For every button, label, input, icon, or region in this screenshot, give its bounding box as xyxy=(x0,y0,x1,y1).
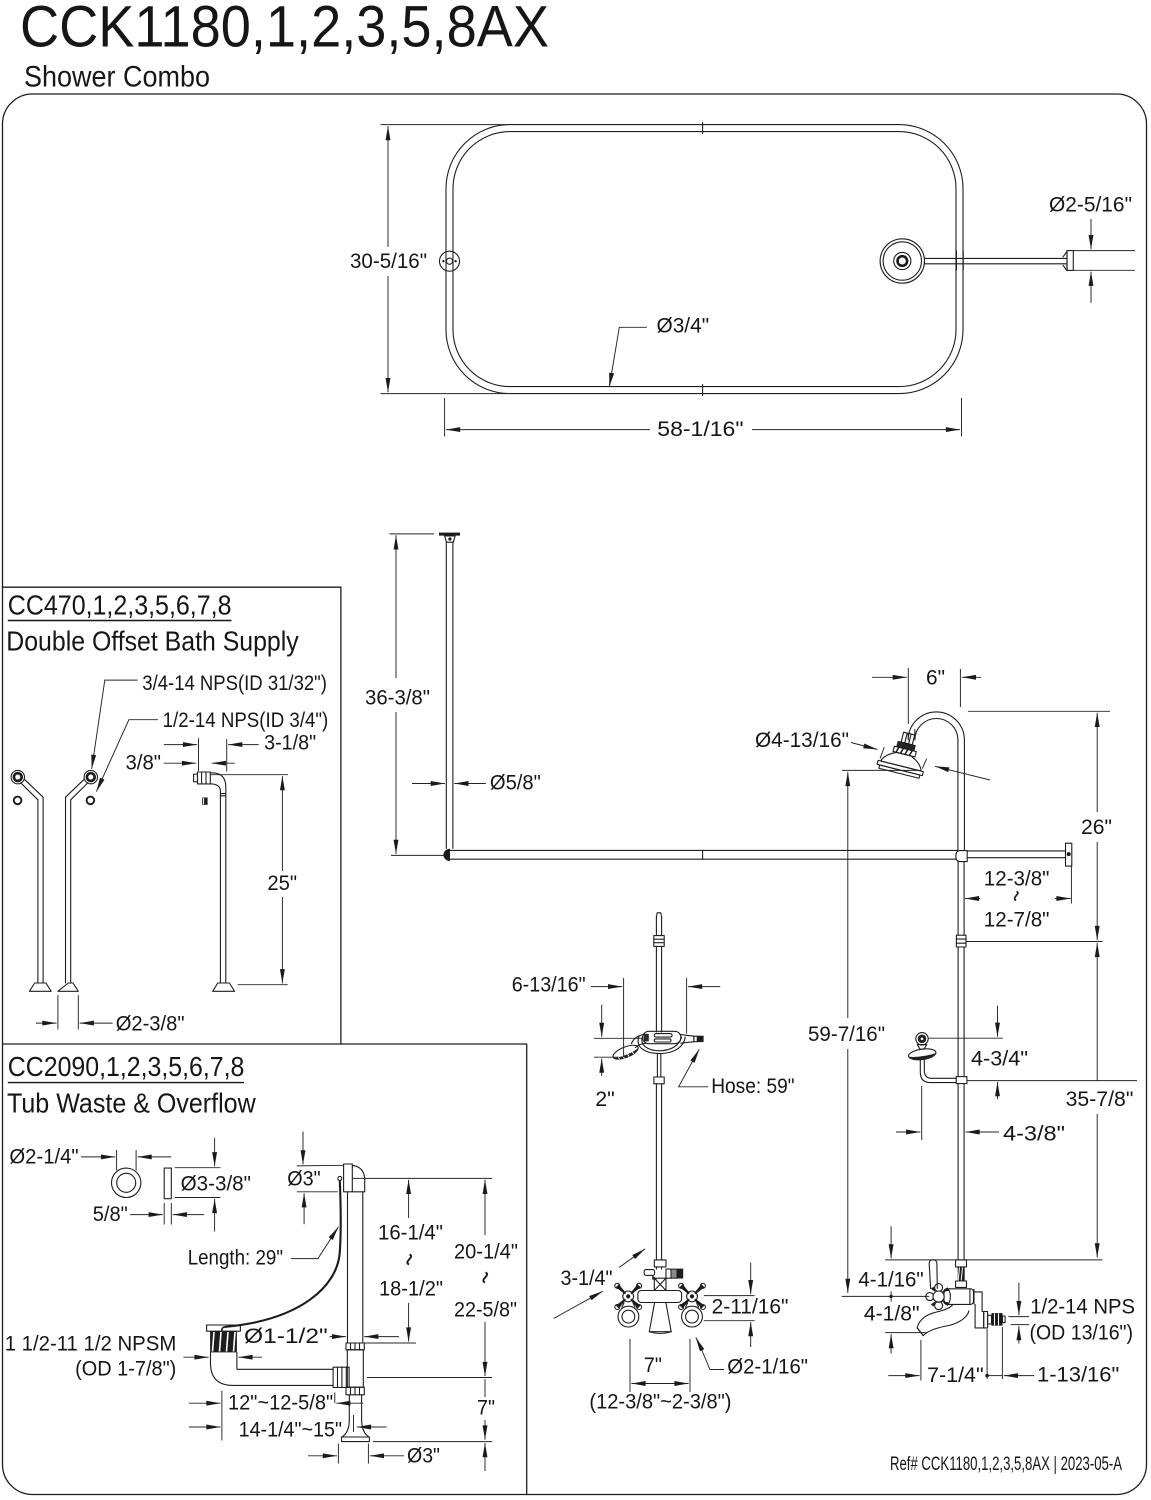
svg-text:5/8": 5/8" xyxy=(93,1202,128,1226)
svg-text:Ø2-5/16": Ø2-5/16" xyxy=(1049,193,1132,217)
dim 36-3/8 xyxy=(390,533,435,535)
overflow tee body xyxy=(347,1350,363,1387)
floor flange xyxy=(342,1421,369,1437)
cradle hook xyxy=(638,1037,685,1054)
dim 12-3/8 ~ 12-7/8 (right rod length) xyxy=(1070,867,1072,904)
svg-text:Ø3": Ø3" xyxy=(287,1167,320,1191)
ceiling flange cup xyxy=(445,536,456,542)
svg-text:CCK1180,1,2,3,5,8AX: CCK1180,1,2,3,5,8AX xyxy=(20,0,549,60)
middle riser pipe to cradle xyxy=(655,946,657,1032)
supply pipe 3 port mark xyxy=(202,798,207,805)
svg-text:2-11/16": 2-11/16" xyxy=(712,1295,789,1319)
rod mid joint tick xyxy=(702,850,704,859)
middle faucet diverter lever xyxy=(644,1270,654,1276)
svg-text:7-1/4": 7-1/4" xyxy=(927,1363,984,1387)
waste arm coupling xyxy=(333,1367,349,1387)
dim 4-3/4 xyxy=(929,1037,1003,1039)
hand shower cone xyxy=(917,1045,926,1050)
svg-text:30-5/16": 30-5/16" xyxy=(350,249,427,273)
svg-text:Length: 29": Length: 29" xyxy=(188,1246,283,1270)
dim 30-5/16 xyxy=(381,124,509,126)
dim 12~12-5/8 xyxy=(221,1391,223,1441)
svg-text:7": 7" xyxy=(477,1396,495,1420)
dim O2-3/8 xyxy=(57,995,59,1030)
oval ceiling flange rings xyxy=(880,239,924,283)
supply pipe 2 wall flange xyxy=(84,770,97,783)
curtain rod oval outer xyxy=(446,125,963,394)
horizontal curtain rod side view xyxy=(447,849,958,851)
svg-text:Ø3/4": Ø3/4" xyxy=(657,314,710,338)
supply pipe 1 wall flange xyxy=(11,770,24,783)
cradle stem + clamp xyxy=(656,1054,658,1077)
oval joint tick top xyxy=(702,123,704,134)
svg-text:1-13/16": 1-13/16" xyxy=(1037,1363,1119,1387)
right faucet wall bracket xyxy=(974,1292,984,1328)
overflow washer ring xyxy=(112,1168,141,1197)
middle faucet riser nut xyxy=(654,1260,666,1267)
middle faucet body xyxy=(655,1267,657,1269)
right faucet valve body xyxy=(944,1289,974,1305)
svg-text:(12-3/8"~2-3/8"): (12-3/8"~2-3/8") xyxy=(589,1390,731,1414)
dim 3-1/8 xyxy=(198,738,200,771)
dim O3 (overflow head) xyxy=(297,1164,344,1167)
middle faucet hose nipple xyxy=(666,1269,671,1278)
dim O5/8 xyxy=(412,783,445,785)
svg-text:1/2-14 NPS: 1/2-14 NPS xyxy=(1030,1295,1135,1319)
dim 4-1/16 xyxy=(890,1226,892,1258)
overflow flexible hose xyxy=(225,1181,341,1328)
supply pipe 2 tube xyxy=(71,783,88,983)
svg-text:Ø2-3/8": Ø2-3/8" xyxy=(116,1012,185,1036)
shower head rim xyxy=(877,760,923,775)
svg-text:4-1/8": 4-1/8" xyxy=(864,1302,920,1326)
svg-text:25": 25" xyxy=(267,871,297,895)
overflow head cover plate xyxy=(344,1164,353,1192)
dim O3 (floor flange) xyxy=(337,1444,339,1464)
supply pipe 1 tube xyxy=(21,783,38,983)
svg-text:7": 7" xyxy=(644,1353,662,1377)
gooseneck arc xyxy=(908,712,964,740)
overflow pipe upper xyxy=(347,1192,349,1343)
right faucet cross handle xyxy=(935,1284,943,1292)
right faucet lever handle xyxy=(929,1260,937,1289)
dim 20-1/4 ~ 22-5/8 xyxy=(484,1180,486,1235)
tee coupling lower xyxy=(346,1387,364,1395)
dim O2-5/16 xyxy=(1073,250,1135,252)
svg-text:26": 26" xyxy=(1081,815,1112,839)
riser pipe to faucet xyxy=(957,1084,959,1260)
svg-text:(OD 13/16"): (OD 13/16") xyxy=(1030,1321,1134,1345)
drain elbow xyxy=(211,1352,334,1385)
drain strainer flange xyxy=(207,1325,241,1331)
svg-text:4-1/16": 4-1/16" xyxy=(858,1268,923,1292)
svg-text:Ø2-1/4": Ø2-1/4" xyxy=(9,1145,78,1169)
holder extension line xyxy=(967,1080,1137,1082)
dim 1/2-14 NPS (OD 13/16) xyxy=(1009,1316,1030,1318)
shower riser pipe (above rod) xyxy=(957,740,959,850)
svg-text:Shower Combo: Shower Combo xyxy=(24,61,210,94)
right rod wall flange xyxy=(1066,843,1072,866)
supply pipe 3 nut xyxy=(194,774,198,782)
svg-text:3/8": 3/8" xyxy=(126,751,162,775)
overflow tee coupling upper xyxy=(346,1343,364,1350)
dim 26" xyxy=(968,710,1110,712)
ceiling support rod xyxy=(445,542,447,848)
right faucet threaded section xyxy=(958,1267,965,1281)
faucet extension line (nut top) xyxy=(885,1259,1102,1261)
dim 59-7/16 xyxy=(842,769,918,771)
rod sleeve at riser crossing xyxy=(956,851,967,862)
middle faucet valve bar xyxy=(638,1291,682,1303)
dim 35-7/8 xyxy=(1096,943,1098,1081)
svg-text:12-7/8": 12-7/8" xyxy=(984,908,1050,932)
dim 58-1/16 xyxy=(444,398,446,437)
middle riser pipe upper xyxy=(655,917,657,936)
wall support rod (oval to wall flange) xyxy=(924,257,1066,259)
faucet centerline extension xyxy=(842,1295,930,1297)
svg-text:Ø5/8": Ø5/8" xyxy=(490,771,541,795)
dim 2-11/16 xyxy=(704,1295,755,1297)
overflow washer side view bar xyxy=(164,1168,171,1199)
svg-text:20-1/4": 20-1/4" xyxy=(454,1240,518,1264)
middle riser pipe top taper xyxy=(656,913,661,917)
shower head group (tilted) xyxy=(876,728,931,779)
overflow elbow xyxy=(352,1165,364,1192)
supply pipe 2 lower port xyxy=(87,797,95,805)
svg-text:Ref# CCK1180,1,2,3,5,8AX | 202: Ref# CCK1180,1,2,3,5,8AX | 2023-05-A xyxy=(890,1454,1122,1475)
box CC2090 border xyxy=(3,1044,527,1495)
dim 6" xyxy=(907,668,909,724)
dim 4-3/8 xyxy=(921,1086,923,1140)
hand shower nozzle xyxy=(681,1035,694,1044)
supply pipe 2 base xyxy=(58,983,78,991)
svg-text:14-1/4"~15": 14-1/4"~15" xyxy=(239,1418,342,1442)
middle riser pipe lower xyxy=(655,1084,657,1260)
svg-text:1 1/2-11 1/2 NPSM: 1 1/2-11 1/2 NPSM xyxy=(5,1332,177,1356)
supply pipe 3 elbow + tube xyxy=(210,773,226,983)
svg-text:4-3/4": 4-3/4" xyxy=(971,1047,1028,1071)
riser pipe continues xyxy=(957,947,959,1077)
dim 14-1/4~15 xyxy=(189,1426,221,1428)
svg-text:Ø4-13/16": Ø4-13/16" xyxy=(755,728,849,752)
dim 25 xyxy=(210,774,288,776)
svg-text:Ø3-3/8": Ø3-3/8" xyxy=(181,1172,251,1196)
holder clamp block on riser xyxy=(956,1077,967,1084)
svg-text:Ø2-1/16": Ø2-1/16" xyxy=(727,1355,808,1379)
union extension line xyxy=(967,941,1103,943)
middle faucet right cross handle xyxy=(679,1283,706,1309)
svg-text:58-1/16": 58-1/16" xyxy=(657,417,743,441)
svg-text:Double Offset Bath Supply: Double Offset Bath Supply xyxy=(6,626,299,657)
riser union coupling xyxy=(956,935,966,947)
svg-text:3/4-14 NPS(ID 31/32"): 3/4-14 NPS(ID 31/32") xyxy=(142,671,327,695)
svg-text:Ø1-1/2": Ø1-1/2" xyxy=(244,1324,328,1348)
svg-text:(OD 1-7/8"): (OD 1-7/8") xyxy=(75,1357,176,1381)
dim O3-3/8 xyxy=(175,1167,221,1169)
middle faucet left cross handle xyxy=(615,1283,642,1309)
bottom extension lines xyxy=(920,1340,922,1381)
svg-text:CC470,1,2,3,5,6,7,8: CC470,1,2,3,5,6,7,8 xyxy=(8,590,232,621)
middle faucet right loop xyxy=(682,1306,703,1327)
supply pipe 3 base xyxy=(213,983,235,991)
right faucet wall nipple (threaded) xyxy=(992,1313,1003,1326)
drain tailpipe xyxy=(348,1395,350,1421)
middle faucet left loop xyxy=(618,1306,639,1327)
drain body (threaded) xyxy=(210,1331,237,1352)
svg-text:6-13/16": 6-13/16" xyxy=(512,973,586,997)
hand shower head (left, tilted) xyxy=(632,1034,645,1043)
hand shower brim xyxy=(908,1047,937,1061)
overflow hose nipple xyxy=(338,1176,342,1180)
dim 7-1/4 xyxy=(888,1375,919,1377)
hand shower knob xyxy=(916,1033,928,1045)
oval joint tick bottom xyxy=(702,385,704,396)
dim 1-13/16 xyxy=(1004,1375,1034,1377)
supply pipe 1 lower port xyxy=(14,797,22,805)
dim 2" xyxy=(601,1005,603,1037)
svg-text:4-3/8": 4-3/8" xyxy=(1003,1122,1065,1146)
dim 7" (tailpipe) xyxy=(484,1379,486,1397)
svg-text:36-3/8": 36-3/8" xyxy=(365,686,430,710)
svg-text:Tub Waste & Overflow: Tub Waste & Overflow xyxy=(7,1088,256,1119)
svg-text:3-1/8": 3-1/8" xyxy=(264,731,316,755)
right wall-support rod xyxy=(967,850,1065,852)
svg-text:35-7/8": 35-7/8" xyxy=(1066,1087,1134,1111)
box CC470 border xyxy=(3,587,341,1044)
svg-text:Hose: 59": Hose: 59" xyxy=(711,1074,794,1098)
svg-text:12"~12-5/8": 12"~12-5/8" xyxy=(228,1391,333,1415)
svg-text:2": 2" xyxy=(595,1087,615,1111)
shower head nut xyxy=(901,732,915,745)
right faucet riser nut xyxy=(956,1260,967,1267)
right faucet spout xyxy=(917,1305,969,1336)
wall flange at right xyxy=(1063,252,1067,271)
dim 7" (middle faucet) xyxy=(629,1339,631,1392)
rod left end cap xyxy=(444,849,450,860)
svg-text:1/2-14 NPS(ID 3/4"): 1/2-14 NPS(ID 3/4") xyxy=(163,708,329,732)
shower riser pipe (below rod) xyxy=(957,862,959,935)
holder arm tube xyxy=(920,1060,956,1083)
svg-text:12-3/8": 12-3/8" xyxy=(984,867,1050,891)
rod crossing ticks on oval tube xyxy=(955,251,957,270)
hand shower body in cradle xyxy=(643,1031,681,1043)
svg-text:6": 6" xyxy=(926,666,945,690)
curtain rod oval inner xyxy=(453,132,956,387)
svg-text:16-1/4": 16-1/4" xyxy=(378,1221,443,1245)
svg-text:CC2090,1,2,3,5,6,7,8: CC2090,1,2,3,5,6,7,8 xyxy=(8,1051,245,1082)
middle riser union xyxy=(654,936,664,947)
svg-text:3-1/4": 3-1/4" xyxy=(561,1266,613,1290)
svg-text:59-7/16": 59-7/16" xyxy=(808,1022,885,1046)
svg-text:Ø3": Ø3" xyxy=(407,1444,440,1468)
svg-text:22-5/8": 22-5/8" xyxy=(454,1298,517,1322)
middle faucet spout xyxy=(649,1303,671,1332)
shower head bell xyxy=(881,749,924,771)
right faucet lower nut xyxy=(956,1281,967,1287)
supply pipe 1 base xyxy=(29,983,51,991)
shower head collar rings xyxy=(897,741,915,751)
ceiling flange plate xyxy=(439,533,460,536)
oval left connector circle xyxy=(440,251,460,271)
dim 16-1/4 ~ 18-1/2 xyxy=(352,1177,492,1179)
svg-text:18-1/2": 18-1/2" xyxy=(379,1277,443,1301)
